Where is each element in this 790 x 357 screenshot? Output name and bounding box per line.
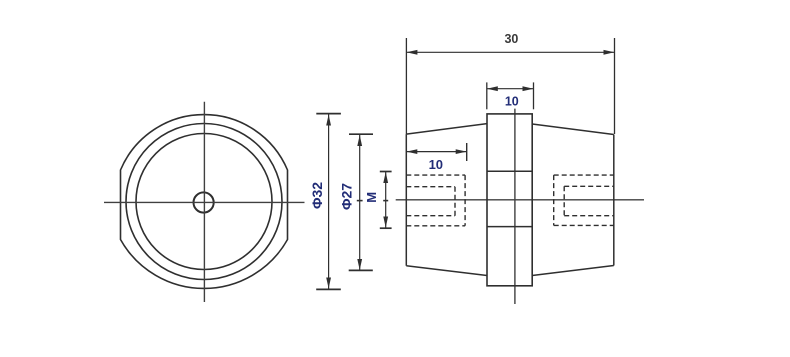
dimension M arrows [383, 172, 388, 183]
right body top edge [532, 124, 614, 135]
dimension M line [385, 172, 387, 228]
right body bottom edge [532, 266, 614, 276]
dimension 30 arrows [406, 50, 417, 55]
dimension 30 line [406, 51, 614, 53]
dimension D32 line [328, 115, 330, 289]
left body face [405, 134, 407, 266]
svg-text:10: 10 [429, 157, 443, 172]
dimension 10 band left extension line [486, 82, 488, 109]
svg-text:10: 10 [505, 95, 519, 109]
dimension D27 arrows [357, 135, 362, 146]
front view horizontal centerline [104, 201, 305, 203]
left body bottom edge [406, 266, 487, 276]
front view middle circle [126, 124, 282, 280]
left tapped hole inner dashed top [406, 186, 455, 188]
svg-text:Φ32: Φ32 [309, 182, 325, 209]
centerline tick on D27 line [357, 200, 363, 202]
band inner line lower [487, 226, 532, 228]
dimension D27 extension stubs [349, 133, 373, 135]
front view inner circle [136, 134, 272, 270]
dimension 30 left extension line [405, 38, 407, 134]
center hole [194, 192, 214, 212]
left tapped hole outer dashed end [464, 175, 466, 226]
left tapped hole outer dashed top [406, 174, 465, 176]
dimension 10 band right extension line [533, 82, 535, 109]
right tapped hole inner dashed bottom [564, 215, 614, 217]
dimension D32 arrows [326, 115, 331, 126]
svg-text:Φ27: Φ27 [338, 183, 354, 210]
dimension 30 right extension line [614, 38, 616, 134]
front view vertical centerline [203, 102, 205, 302]
side view vertical centerline [514, 109, 516, 304]
svg-text:30: 30 [504, 32, 518, 46]
dimension M extension stubs [380, 171, 392, 173]
dimension D27 line [359, 135, 361, 270]
dimension D32 extension stubs [316, 113, 341, 115]
dimension 10 band line [487, 88, 534, 90]
dimension 10 band arrows [487, 86, 498, 91]
left tapped hole inner dashed end [454, 187, 456, 216]
side view center band [487, 114, 532, 286]
band inner line upper [487, 170, 532, 172]
side view horizontal centerline [396, 199, 644, 201]
right tapped hole inner dashed end [563, 186, 565, 215]
right tapped hole outer dashed top [554, 174, 614, 176]
right tapped hole outer dashed bottom [554, 224, 614, 226]
right tapped hole inner dashed top [564, 185, 614, 187]
right body face [613, 135, 615, 266]
dimension 10 depth line [406, 151, 466, 153]
left body top edge [406, 124, 487, 135]
dimension 10 depth tick [466, 143, 468, 161]
left tapped hole outer dashed bottom [406, 225, 465, 227]
dimension 10 depth arrows [406, 149, 417, 154]
front view outer profile (circle with side flats) [121, 115, 288, 289]
left tapped hole inner dashed bottom [406, 215, 455, 217]
centerline tick on M line [383, 200, 388, 202]
right tapped hole outer dashed end [553, 175, 555, 225]
svg-text:M: M [364, 192, 379, 203]
